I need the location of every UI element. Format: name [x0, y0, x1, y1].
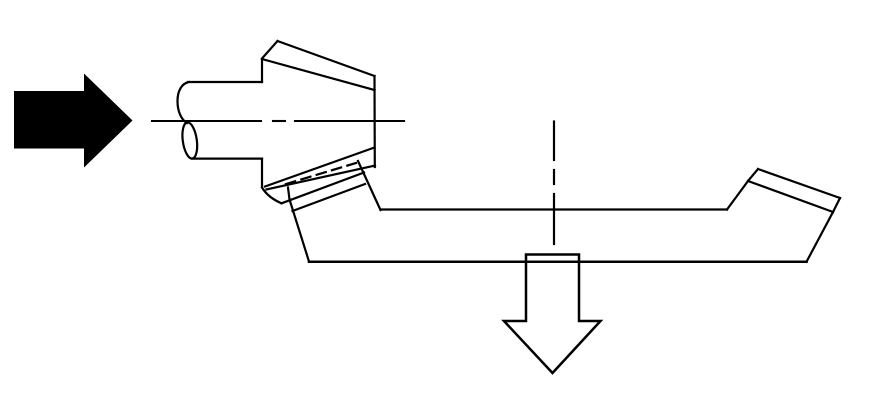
ring gear right outer edge: [807, 212, 834, 262]
pinion shaft top edge: [188, 81, 262, 83]
pinion back face (upper vertical): [261, 59, 263, 82]
pinion outer cone top edge: [278, 41, 375, 76]
pinion shaft end boss (small ellipse): [180, 122, 199, 160]
pinion right face: [373, 76, 375, 167]
ring gear left outer edge: [288, 188, 309, 262]
ring gear right rim tooth face top edge: [758, 169, 840, 198]
output arrow (outline, pointing down): [504, 255, 601, 374]
pinion top chamfer: [262, 41, 278, 59]
pinion shaft centerline (horizontal dash-dot): [152, 120, 404, 122]
pinion shaft bottom edge: [192, 158, 262, 160]
pinion top tooth root line: [262, 59, 375, 90]
ring gear tooth slot edge: [358, 161, 381, 210]
pinion bottom tooth line C: [282, 173, 365, 204]
pinion shaft rounded left end (freehand curve): [178, 82, 190, 123]
ring gear centerline (vertical dash-dot): [553, 122, 555, 245]
pinion back face (lower vertical): [261, 159, 263, 187]
ring gear right rim slant from inner edge: [727, 181, 748, 210]
pinion bottom tooth line B: [267, 166, 376, 190]
ring gear right rim left cap: [748, 169, 758, 181]
pinion bottom tooth hidden root line (dashed): [286, 163, 356, 184]
pinion heel corner curve: [262, 188, 282, 204]
ring gear top inner edge: [381, 208, 728, 210]
input arrow (solid, pointing right): [14, 74, 133, 168]
ring gear right rim tooth face bottom edge: [748, 181, 833, 212]
pinion bottom tooth top line A: [265, 148, 375, 187]
ring gear bottom edge: [309, 261, 807, 264]
ring gear right rim right cap: [833, 198, 840, 212]
ring gear tooth top-left line D: [293, 184, 366, 211]
